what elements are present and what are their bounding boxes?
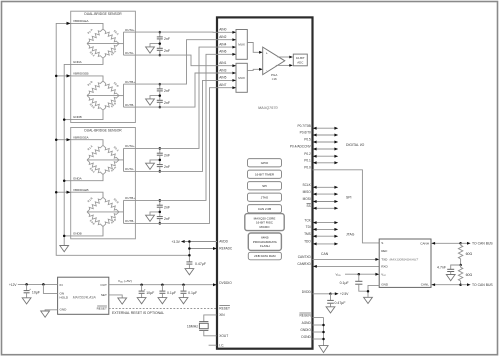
sensor 1 OUTA+ wire <box>124 31 136 33</box>
wire +12V input <box>18 283 58 285</box>
arrow into MUX for AIN7 <box>232 86 236 89</box>
svg-text:ADC: ADC <box>297 61 303 65</box>
wire sensor output to AIN3 <box>135 73 236 107</box>
capacitor C2Ab 2nF <box>159 160 161 165</box>
sensor 1 VBRIDGEB wire <box>71 76 103 81</box>
dashed RESET wire (external reset optional) <box>109 307 217 309</box>
bridge resistor R4-B <box>103 96 119 111</box>
svg-text:JTAG: JTAG <box>261 195 269 199</box>
ground bus branch sensor2 GNDB <box>64 235 71 237</box>
svg-text:GNDIO: GNDIO <box>300 328 311 332</box>
ground symbol SET <box>118 298 127 304</box>
svg-text:P0.6/T0: P0.6/T0 <box>300 131 311 135</box>
capacitor C1Ab 2nF <box>159 44 161 49</box>
bridge B mid wire <box>87 95 119 97</box>
arrow into MUX for AIN4 <box>232 46 236 49</box>
sensor 2 GNDA wire <box>71 175 103 181</box>
arrow into MUX for AIN2 <box>232 38 236 41</box>
svg-text:+3.3V: +3.3V <box>171 240 180 244</box>
svg-text:OUTA-: OUTA- <box>125 167 134 171</box>
svg-text:+12V: +12V <box>9 283 17 287</box>
wire PGA- to ADC <box>276 64 290 66</box>
svg-text:0.1μF: 0.1μF <box>188 291 197 295</box>
ground symbol for C2B <box>150 212 160 215</box>
svg-text:VBRIDGEA: VBRIDGEA <box>73 19 89 23</box>
bus branch to sensor2 VBRIDGEA <box>56 139 67 141</box>
dual-bridge sensor 2 box <box>71 128 136 239</box>
op-amp PGA x16 <box>263 47 285 75</box>
bridge resistor R2-B <box>103 81 119 96</box>
svg-text:2nF: 2nF <box>164 101 170 105</box>
junction dots C2A <box>159 147 162 150</box>
sensor 2 OUTB- wire <box>124 222 136 224</box>
internal block 64KB PROGRAM/DATA FLASH <box>248 233 281 250</box>
bridge resistor R1-A <box>87 145 103 160</box>
bridge resistor R2-B <box>103 197 119 212</box>
capacitor C7 0.1μF on VDD rail <box>183 285 185 291</box>
internal block CAN 2.0B <box>248 205 282 213</box>
svg-text:OUTA-: OUTA- <box>125 51 134 55</box>
capacitor 0.47uF at DVDD <box>330 294 332 301</box>
svg-text:VBRIDGEB: VBRIDGEB <box>73 188 89 192</box>
arrow into MUX for AIN0 <box>232 31 236 34</box>
svg-text:EXTERNAL RESET IS OPTIONAL: EXTERNAL RESET IS OPTIONAL <box>112 311 164 315</box>
wire CANRXD from transceiver RXD <box>316 265 379 267</box>
svg-text:OUTB+: OUTB+ <box>125 196 135 200</box>
svg-text:2nF: 2nF <box>164 217 170 221</box>
svg-text:SPI: SPI <box>262 184 267 188</box>
svg-text:CANRXD: CANRXD <box>297 262 311 266</box>
bridge resistor R2-A <box>103 145 119 160</box>
svg-text:REFADC: REFADC <box>219 247 233 251</box>
bridge A output stub and bar <box>119 159 121 161</box>
svg-text:AIN7: AIN7 <box>219 83 226 87</box>
ground symbol below REFADC cap <box>185 269 194 275</box>
svg-text:OUTB+: OUTB+ <box>125 80 135 84</box>
resistor R2 60ohm <box>460 265 462 267</box>
svg-text:IN: IN <box>60 283 63 287</box>
arrow into MUX for AIN5 <box>232 79 236 82</box>
svg-text:XIN: XIN <box>219 313 225 317</box>
svg-text:CANTXD: CANTXD <box>298 255 312 259</box>
svg-text:HOLD: HOLD <box>60 296 69 300</box>
svg-text:MUX: MUX <box>238 76 245 80</box>
svg-text:0.47μF: 0.47μF <box>335 301 346 305</box>
internal block 16-BIT TIMER <box>248 170 282 178</box>
svg-text:DUAL-BRIDGE SENSOR: DUAL-BRIDGE SENSOR <box>84 128 122 132</box>
svg-text:CAN: CAN <box>321 252 329 256</box>
internal block MAXQ20 CORE 16-BIT RISC MICRO <box>245 214 284 231</box>
sensor 1 OUTA- wire <box>124 54 136 56</box>
svg-text:+: + <box>266 51 268 55</box>
capacitor C5 10μF on VDD rail <box>141 285 143 291</box>
svg-text:2nF: 2nF <box>164 165 170 169</box>
wire SET to ground <box>109 295 122 298</box>
ADC block 10-BIT ADC <box>293 54 307 66</box>
crystal Y1 16MHz <box>199 321 208 323</box>
ground symbol U3 GND <box>364 297 373 303</box>
svg-text:SET: SET <box>101 293 107 297</box>
bridge A mid wire <box>87 159 119 161</box>
svg-text:MAX5024LASA: MAX5024LASA <box>73 295 97 299</box>
wire P0.0 to CAN transceiver S pin <box>313 170 380 243</box>
sensor 2 VBRIDGEB wire <box>71 192 103 197</box>
bridge A output stub and bar <box>119 43 121 45</box>
wire sensor output to AIN7 <box>135 88 236 224</box>
sensor ground bus <box>64 64 71 245</box>
sensor 2 GNDB wire <box>71 227 103 236</box>
svg-text:REGEN: REGEN <box>299 314 311 318</box>
svg-text:CANH: CANH <box>420 241 429 245</box>
bus branch to sensor1 VBRIDGEB <box>56 75 67 77</box>
svg-text:CAN 2.0B: CAN 2.0B <box>258 207 271 211</box>
arrow into MUX for AIN3 <box>232 72 236 75</box>
bus branch to sensor2 VBRIDGEB <box>56 191 67 193</box>
svg-text:P0.1: P0.1 <box>304 159 311 163</box>
svg-text:TCK: TCK <box>304 218 311 222</box>
ground symbol for U1 ground pins <box>319 346 328 353</box>
svg-text:GNDA: GNDA <box>73 60 82 64</box>
svg-text:OUT: OUT <box>100 283 107 287</box>
wire U3 GND to ground <box>368 285 379 297</box>
wire sensor output to AIN5 <box>135 80 236 171</box>
svg-text:MUX: MUX <box>238 43 245 47</box>
internal block SPI <box>248 182 282 190</box>
svg-text:16MHz: 16MHz <box>187 325 198 329</box>
svg-text:AIN1: AIN1 <box>219 61 226 65</box>
svg-text:OUTB-: OUTB- <box>125 103 134 107</box>
svg-text:DGND: DGND <box>301 335 311 339</box>
svg-text:S: S <box>381 241 383 245</box>
svg-text:P0.7/T0B: P0.7/T0B <box>298 124 311 128</box>
ground symbol C7 <box>179 298 188 304</box>
wire sensor output to AIN1 <box>135 55 236 66</box>
svg-text:RESET: RESET <box>219 307 230 311</box>
wire sensor output to AIN2 <box>135 40 236 84</box>
svg-text:FLASH: FLASH <box>260 244 270 248</box>
capacitor C6 0.1μF on VDD rail <box>161 285 163 291</box>
svg-text:SS: SS <box>307 204 311 208</box>
sensor 2 VBRIDGEA wire <box>71 140 103 146</box>
svg-text:P0.4/ADCCNV: P0.4/ADCCNV <box>290 145 312 149</box>
capacitor C2Aa 2nF <box>159 148 161 153</box>
svg-text:4.7nF: 4.7nF <box>437 266 446 270</box>
svg-text:10-BIT: 10-BIT <box>296 56 305 60</box>
sensor 2 OUTA- wire <box>124 170 136 172</box>
wire CANTXD to transceiver TXD <box>313 258 376 260</box>
svg-text:RESET: RESET <box>97 307 107 311</box>
bridge resistor R3-B <box>87 96 103 111</box>
svg-text:0.47μF: 0.47μF <box>195 262 206 266</box>
capacitor 10uF input <box>26 284 28 290</box>
svg-text:0.1μF: 0.1μF <box>167 291 176 295</box>
internal block JTAG <box>248 193 282 201</box>
svg-text:60Ω: 60Ω <box>466 252 473 256</box>
ground symbol input cap <box>22 298 31 304</box>
internal block GPIO <box>248 159 282 167</box>
svg-text:VBRIDGEB: VBRIDGEB <box>73 72 89 76</box>
bridge resistor R1-A <box>87 29 103 44</box>
resistor R1 60ohm <box>460 243 462 245</box>
capacitor C1Aa 2nF <box>159 32 161 37</box>
mux U1-MUX1 <box>236 30 247 60</box>
svg-text:OUTB-: OUTB- <box>125 219 134 223</box>
CAN transceiver U3 MAX13050ASA/AUT box <box>379 239 431 287</box>
svg-text:VDD (+5V): VDD (+5V) <box>118 279 132 284</box>
svg-text:10μF: 10μF <box>32 290 40 294</box>
svg-text:TDI: TDI <box>306 225 311 229</box>
svg-text:P0.5: P0.5 <box>304 138 311 142</box>
junction dots C1B <box>159 83 162 86</box>
svg-text:DUAL-BRIDGE SENSOR: DUAL-BRIDGE SENSOR <box>84 12 122 16</box>
bridge resistor R4-A <box>103 44 119 59</box>
capacitor C1Ba 2nF <box>159 84 161 89</box>
bridge resistor R4-A <box>103 160 119 175</box>
svg-text:RXD: RXD <box>381 265 388 269</box>
wire REFADC <box>189 248 213 250</box>
svg-text:DIGITAL I/O: DIGITAL I/O <box>346 143 365 147</box>
svg-text:REF: REF <box>381 249 387 253</box>
bridge B output stub and bar <box>119 211 121 213</box>
sensor 1 GNDB wire <box>71 110 103 119</box>
wire XIN to crystal <box>204 315 217 322</box>
bridge resistor R1-B <box>87 81 103 96</box>
svg-text:VBRIDGEA: VBRIDGEA <box>73 135 89 139</box>
wire VDD rail to DVDDIO <box>109 284 213 286</box>
svg-text:TO CAN BUS: TO CAN BUS <box>472 283 493 287</box>
ground symbol C6 <box>158 298 167 304</box>
svg-text:MAX13050ASA/AUT: MAX13050ASA/AUT <box>390 258 420 262</box>
arrow +3.3V <box>181 240 185 243</box>
svg-text:60Ω: 60Ω <box>466 273 473 277</box>
svg-text:P0.2: P0.2 <box>304 152 311 156</box>
svg-text:DVDD: DVDD <box>302 290 312 294</box>
svg-text:SCLK: SCLK <box>302 183 311 187</box>
svg-text:-: - <box>266 68 267 72</box>
svg-text:10μF: 10μF <box>146 291 154 295</box>
ground bus branch sensor2 GNDA <box>64 180 71 182</box>
svg-text:I.C.: I.C. <box>219 343 224 347</box>
svg-text:XOUT: XOUT <box>219 334 228 338</box>
wire MUX2 to PGA <box>247 69 259 70</box>
svg-text:DVDDIO: DVDDIO <box>219 281 232 285</box>
wire CANH <box>431 242 461 244</box>
ground symbol DVDD cap <box>326 307 335 313</box>
capacitor C2Bb 2nF <box>159 212 161 217</box>
svg-text:AVDD: AVDD <box>219 240 228 244</box>
bridge resistor R2-A <box>103 29 119 44</box>
svg-text:2nF: 2nF <box>164 89 170 93</box>
ground bus branch sensor1 GNDB <box>64 119 71 121</box>
bridge resistor R3-A <box>87 44 103 59</box>
svg-text:MISO: MISO <box>303 190 312 194</box>
wire sensor output to AIN6 <box>135 54 236 200</box>
svg-text:×16: ×16 <box>272 77 277 81</box>
bridge B output stub and bar <box>119 95 121 97</box>
ground symbol termination cap <box>446 275 455 281</box>
VBRIDGE supply bus <box>56 23 189 255</box>
wire AVDD to +3.3V <box>185 241 217 243</box>
svg-text:2nF: 2nF <box>164 37 170 41</box>
wires ground pins to common <box>313 317 324 319</box>
svg-text:2nF: 2nF <box>164 49 170 53</box>
svg-text:TDO: TDO <box>304 240 311 244</box>
svg-text:+2.5V: +2.5V <box>340 292 349 296</box>
sensor 2 OUTA+ wire <box>124 147 136 149</box>
capacitor C1Bb 2nF <box>159 96 161 101</box>
svg-text:P0.0: P0.0 <box>304 166 311 170</box>
internal block 2KB DATA RAM <box>248 252 281 259</box>
svg-text:AIN2: AIN2 <box>219 35 226 39</box>
arrow into sensor1 VBRIDGEA <box>67 22 71 25</box>
capacitor 4.7nF termination <box>451 265 461 269</box>
svg-text:AGND: AGND <box>302 321 312 325</box>
svg-text:AIN4: AIN4 <box>219 42 226 46</box>
bridge resistor R3-B <box>87 212 103 227</box>
svg-text:GNDB: GNDB <box>73 115 82 119</box>
wire CANL <box>431 284 461 286</box>
ground symbol for C2A <box>150 160 160 163</box>
bridge resistor R4-B <box>103 212 119 227</box>
sensor 2 OUTB+ wire <box>124 199 136 201</box>
svg-text:AIN3: AIN3 <box>219 68 226 72</box>
junction dots C2B <box>159 199 162 202</box>
svg-text:AIN5: AIN5 <box>219 76 226 80</box>
ground symbol for C1B <box>150 96 160 99</box>
arrow into MUX for AIN6 <box>232 53 236 56</box>
ground symbol C5 <box>137 298 146 304</box>
wire U2 GND to ground <box>45 310 58 311</box>
svg-text:CANL: CANL <box>421 283 430 287</box>
bridge A mid wire <box>87 43 119 45</box>
sensor 1 GNDA wire <box>71 58 103 64</box>
wire crystal to XOUT <box>204 330 217 335</box>
ground symbol for C1A <box>150 44 160 47</box>
svg-text:GND: GND <box>381 282 389 286</box>
bridge resistor R3-A <box>87 160 103 175</box>
wire MUX1 to PGA <box>247 43 259 53</box>
wire DVDD to +2.5V <box>313 293 331 295</box>
svg-text:GNDA: GNDA <box>73 176 82 180</box>
svg-text:OUTA+: OUTA+ <box>125 28 135 32</box>
svg-text:TMS: TMS <box>304 232 311 236</box>
arrow TO CAN BUS (CANH) <box>461 242 468 244</box>
svg-text:TXD: TXD <box>381 258 388 262</box>
svg-text:0.1μF: 0.1μF <box>340 281 349 285</box>
wire PGA+ to ADC <box>278 56 290 58</box>
node AVDD/REFADC vertical <box>188 242 190 262</box>
wire VDD to VCC <box>345 273 376 275</box>
microcontroller U1 MAXQ7670 box <box>217 17 313 348</box>
svg-text:OUTA+: OUTA+ <box>125 144 135 148</box>
capacitor 0.1uF at VCC <box>358 274 360 281</box>
dual-bridge sensor 1 box <box>71 11 136 122</box>
sensor 1 OUTB- wire <box>124 106 136 108</box>
ground symbol for sensor bus <box>60 246 69 252</box>
wire sensor output to AIN0 <box>135 31 236 33</box>
capacitor C2Ba 2nF <box>159 200 161 205</box>
svg-text:AIN6: AIN6 <box>219 50 226 54</box>
svg-text:SPI: SPI <box>346 195 352 199</box>
svg-text:TO CAN BUS: TO CAN BUS <box>472 242 493 246</box>
svg-text:GNDB: GNDB <box>73 232 82 236</box>
svg-text:JTAG: JTAG <box>346 232 355 236</box>
junction dots C1A <box>159 31 162 34</box>
svg-text:2nF: 2nF <box>164 153 170 157</box>
sensor 1 VBRIDGEA wire <box>71 23 103 29</box>
capacitor 0.47uF at REFADC <box>186 261 192 263</box>
regulator U2 MAX5024LASA box <box>58 277 109 314</box>
svg-text:2nF: 2nF <box>164 205 170 209</box>
svg-text:2KB DATA RAM: 2KB DATA RAM <box>254 254 276 258</box>
svg-text:GND: GND <box>60 307 68 311</box>
svg-text:MAXQ7670: MAXQ7670 <box>258 106 279 110</box>
sensor 1 OUTB+ wire <box>124 83 136 85</box>
bridge resistor R1-B <box>87 197 103 212</box>
ground symbol U2 GND <box>41 311 50 317</box>
bridge B mid wire <box>87 211 119 213</box>
mux U1-MUX2 <box>236 63 247 92</box>
svg-text:MICRO: MICRO <box>260 225 271 229</box>
svg-text:GPIO: GPIO <box>261 161 269 165</box>
arrow TO CAN BUS (CANL) <box>461 284 468 286</box>
svg-text:AIN0: AIN0 <box>219 28 226 32</box>
wire sensor output to AIN4 <box>135 47 236 148</box>
svg-text:16-BIT TIMER: 16-BIT TIMER <box>255 172 275 176</box>
arrow into MUX for AIN1 <box>232 64 236 67</box>
svg-text:MOSI: MOSI <box>303 197 311 201</box>
wire ON/HOLD <box>43 284 57 293</box>
